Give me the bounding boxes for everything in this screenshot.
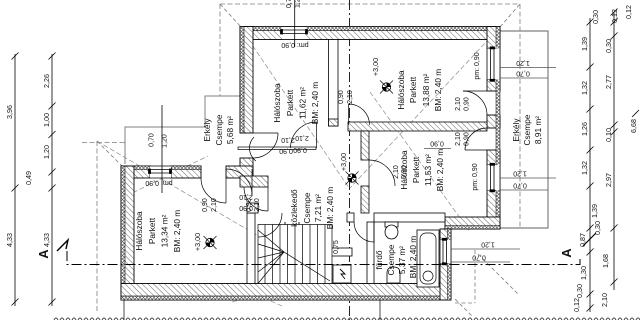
extension lines below building	[124, 300, 380, 320]
window W1 size line	[286, 0, 302, 47]
svg-text:0,12: 0,12	[624, 5, 633, 19]
door size texts lower-left wall	[202, 193, 253, 212]
ridge / centre line (vertical dash-dot)	[349, 0, 351, 320]
svg-text:8,91 m²: 8,91 m²	[533, 116, 543, 144]
svg-text:1,20: 1,20	[162, 134, 169, 148]
svg-text:0,87: 0,87	[578, 233, 587, 247]
svg-text:0,90: 0,90	[464, 97, 471, 111]
svg-text:0,90: 0,90	[401, 165, 408, 179]
svg-text:0,70: 0,70	[516, 70, 530, 77]
svg-text:2,10: 2,10	[347, 90, 354, 104]
svg-text:0,90: 0,90	[430, 140, 444, 147]
svg-text:0,12: 0,12	[572, 298, 581, 312]
svg-text:Parkett: Parkett	[285, 89, 295, 116]
svg-text:+3,00: +3,00	[339, 153, 348, 171]
door size texts right wall middle	[455, 132, 471, 146]
svg-text:1,2: 1,2	[295, 0, 302, 8]
svg-text:1,20: 1,20	[513, 170, 527, 177]
svg-text:Csempe: Csempe	[302, 192, 312, 223]
svg-text:Hálószoba: Hálószoba	[396, 70, 406, 110]
room label bedroom 11,53	[399, 149, 445, 192]
svg-text:4,33: 4,33	[42, 233, 51, 247]
toilet	[385, 222, 398, 239]
room label bedroom 13,88	[396, 69, 443, 112]
svg-text:0,70: 0,70	[513, 182, 527, 189]
door upper-left wall (balcony door)	[253, 133, 278, 158]
svg-text:6,68: 6,68	[629, 119, 638, 133]
left exterior wall	[121, 166, 134, 300]
window W2 size line	[149, 105, 169, 193]
svg-text:BM: 2,40 m: BM: 2,40 m	[408, 236, 418, 279]
svg-text:0,49: 0,49	[24, 171, 33, 185]
svg-text:2,26: 2,26	[42, 74, 51, 88]
window W3 size lines	[500, 59, 556, 78]
thin partition at hall top	[238, 147, 316, 150]
svg-text:4,33: 4,33	[5, 233, 14, 247]
door hall partition right	[291, 122, 317, 148]
svg-text:1,68: 1,68	[601, 254, 610, 268]
svg-text:BM: 2,40 m: BM: 2,40 m	[172, 210, 182, 253]
low parapet wall 0,75	[330, 248, 352, 256]
svg-text:A: A	[36, 249, 51, 259]
svg-text:5,68 m²: 5,68 m²	[225, 116, 235, 144]
right chain B	[611, 9, 618, 291]
window W2 lower-left top wall	[149, 166, 172, 178]
svg-text:Csempe: Csempe	[522, 114, 532, 145]
interior wall above stairs	[247, 203, 258, 213]
bathroom left wall	[367, 222, 374, 284]
room label right balcony	[511, 114, 543, 145]
svg-text:1,30: 1,30	[579, 266, 588, 280]
svg-text:11,62 m²: 11,62 m²	[298, 87, 308, 119]
svg-text:fürdő: fürdő	[374, 250, 384, 269]
room label bedroom 11,62	[272, 82, 320, 125]
roof overhang outline (dashed)	[82, 4, 520, 312]
svg-text:0,30: 0,30	[593, 221, 602, 235]
svg-text:Csempe: Csempe	[214, 114, 224, 145]
window W5 size lines	[451, 241, 520, 263]
svg-text:0,75: 0,75	[333, 240, 340, 254]
svg-text:2,10: 2,10	[254, 198, 261, 212]
washbasin	[387, 267, 400, 283]
svg-text:pm: 0,90: pm: 0,90	[472, 163, 479, 190]
door lower-left wall 2	[226, 169, 252, 195]
window W5 bathroom right wall	[440, 238, 451, 264]
door right wall upper (balcony door)	[463, 91, 487, 115]
svg-text:13,88 m²: 13,88 m²	[421, 73, 431, 106]
svg-text:0,90: 0,90	[464, 132, 471, 146]
door hall partition left	[249, 137, 256, 161]
svg-text:BM: 2,40 m: BM: 2,40 m	[435, 149, 445, 192]
svg-text:0,10: 0,10	[604, 128, 613, 142]
svg-text:2,10: 2,10	[455, 132, 462, 146]
interior wall between rooms 11,62 / 13,88	[329, 40, 339, 127]
room label left balcony	[202, 114, 235, 145]
door hall to bathroom	[354, 222, 374, 242]
svg-text:2,97: 2,97	[604, 173, 613, 187]
svg-text:BM: 2,40 m: BM: 2,40 m	[433, 69, 443, 112]
left chain inner	[49, 53, 56, 307]
room label bedroom 13,34	[134, 210, 182, 253]
left terrace edge (thin outline)	[125, 96, 240, 164]
right chain A	[587, 18, 594, 312]
svg-text:1,20: 1,20	[42, 145, 51, 159]
svg-text:1,20: 1,20	[516, 59, 530, 66]
svg-text:BM: 2,40 m: BM: 2,40 m	[325, 187, 335, 230]
svg-text:Erkély: Erkély	[511, 118, 521, 142]
interior wall hall / room 11,53	[361, 131, 369, 213]
door right wall middle	[465, 128, 487, 150]
svg-text:1,20: 1,20	[481, 241, 495, 248]
level mark hall	[339, 153, 359, 185]
right small chain near section	[590, 5, 633, 235]
svg-text:0,30: 0,30	[591, 10, 600, 24]
svg-text:0,90: 0,90	[338, 90, 345, 104]
roof hip dashes at corners	[97, 4, 520, 317]
svg-text:13,34 m²: 13,34 m²	[160, 214, 170, 247]
svg-text:0,70: 0,70	[149, 133, 156, 147]
roof valley dashes over rooms (big X)	[97, 27, 500, 306]
door size texts hall top door	[338, 90, 354, 104]
door size texts hall partition	[279, 134, 309, 154]
svg-text:pm: 0,90: pm: 0,90	[474, 52, 481, 79]
svg-text:1,32: 1,32	[580, 161, 589, 175]
wall hall / room 13,34 upper	[240, 176, 268, 187]
svg-text:2,10: 2,10	[295, 134, 309, 141]
window W1 top wall	[281, 27, 308, 40]
svg-text:2,77: 2,77	[604, 75, 613, 89]
window W4 right wall lower	[487, 163, 500, 192]
bottom exterior wall	[121, 284, 451, 301]
svg-text:Hálószoba: Hálószoba	[134, 211, 144, 251]
svg-text:2,10: 2,10	[455, 97, 462, 111]
svg-text:+3,00: +3,00	[371, 58, 380, 76]
svg-text:közlekedő: közlekedő	[289, 189, 299, 227]
door jambs hall lower	[285, 222, 299, 230]
svg-text:1,00: 1,00	[42, 113, 51, 127]
svg-text:Csempe: Csempe	[386, 244, 396, 275]
right exterior wall segments	[487, 27, 500, 230]
svg-text:1,26: 1,26	[580, 122, 589, 136]
svg-text:2,10: 2,10	[281, 136, 295, 143]
window W3 right wall upper	[487, 47, 500, 81]
svg-text:Parkett: Parkett	[411, 156, 421, 183]
svg-text:0,90: 0,90	[202, 198, 209, 212]
door size texts right wall upper	[455, 97, 471, 111]
svg-text:Erkély: Erkély	[202, 118, 212, 142]
cut-off dimension text row at bottom	[54, 318, 640, 320]
svg-text:2,10: 2,10	[393, 165, 400, 179]
svg-text:2,10: 2,10	[211, 198, 218, 212]
door hall to stairs	[258, 213, 282, 237]
door size texts stairs door	[246, 198, 261, 212]
step wall bottom-right	[445, 217, 500, 229]
svg-text:+3,00: +3,00	[193, 233, 202, 251]
interior wall hall / bathroom	[347, 213, 445, 222]
svg-text:1,39: 1,39	[590, 204, 599, 218]
bathroom right exterior wall	[440, 229, 451, 300]
svg-text:0,30: 0,30	[575, 284, 584, 298]
window W4 size lines	[500, 170, 556, 191]
top exterior wall	[240, 27, 500, 40]
svg-text:1,32: 1,32	[580, 81, 589, 95]
svg-text:0,70: 0,70	[472, 254, 486, 261]
svg-text:0,12: 0,12	[610, 9, 619, 23]
door hall to room 13,34	[244, 187, 268, 211]
svg-text:0,30: 0,30	[604, 39, 613, 53]
svg-text:Parkett: Parkett	[147, 217, 157, 244]
svg-text:2,10: 2,10	[600, 293, 609, 307]
svg-text:BM: 2,40 m: BM: 2,40 m	[310, 82, 320, 125]
svg-text:1,39: 1,39	[580, 37, 589, 51]
svg-text:Parkett: Parkett	[408, 76, 418, 103]
svg-text:Hálószoba: Hálószoba	[272, 83, 282, 123]
interior wall stairs / room 13,34	[247, 213, 255, 284]
svg-text:11,53 m²: 11,53 m²	[423, 154, 433, 186]
right balcony edge (thin outline)	[500, 31, 548, 228]
room label hall	[289, 187, 335, 230]
svg-text:5,37 m²: 5,37 m²	[397, 246, 407, 274]
svg-text:0,90: 0,90	[293, 146, 307, 153]
svg-text:pm: 0,90: pm: 0,90	[145, 179, 172, 186]
right total	[629, 110, 639, 133]
room label bathroom	[374, 236, 418, 279]
svg-text:0,90: 0,90	[246, 198, 253, 212]
left chain outer	[12, 53, 19, 307]
door lower-left wall 1	[201, 178, 226, 203]
door hall to room 11,53	[369, 160, 395, 186]
level mark room 13,88	[371, 58, 393, 94]
upper-left exterior wall	[240, 27, 253, 179]
bathtub	[417, 230, 439, 287]
level mark room 13,34	[193, 233, 217, 251]
niche size text room 11,53	[424, 140, 451, 149]
svg-text:3,96: 3,96	[5, 105, 14, 119]
door hall to room 13,88	[349, 104, 370, 125]
door size texts room 11,53 door	[393, 165, 408, 179]
svg-text:0,7: 0,7	[286, 0, 293, 8]
svg-text:A: A	[559, 248, 574, 258]
svg-text:0,90: 0,90	[279, 147, 293, 154]
washing machine	[333, 265, 351, 283]
interior wall between rooms 13,88 / 11,53	[348, 122, 487, 131]
svg-text:7,21 m²: 7,21 m²	[313, 194, 323, 222]
lower-left block top wall	[121, 166, 253, 178]
